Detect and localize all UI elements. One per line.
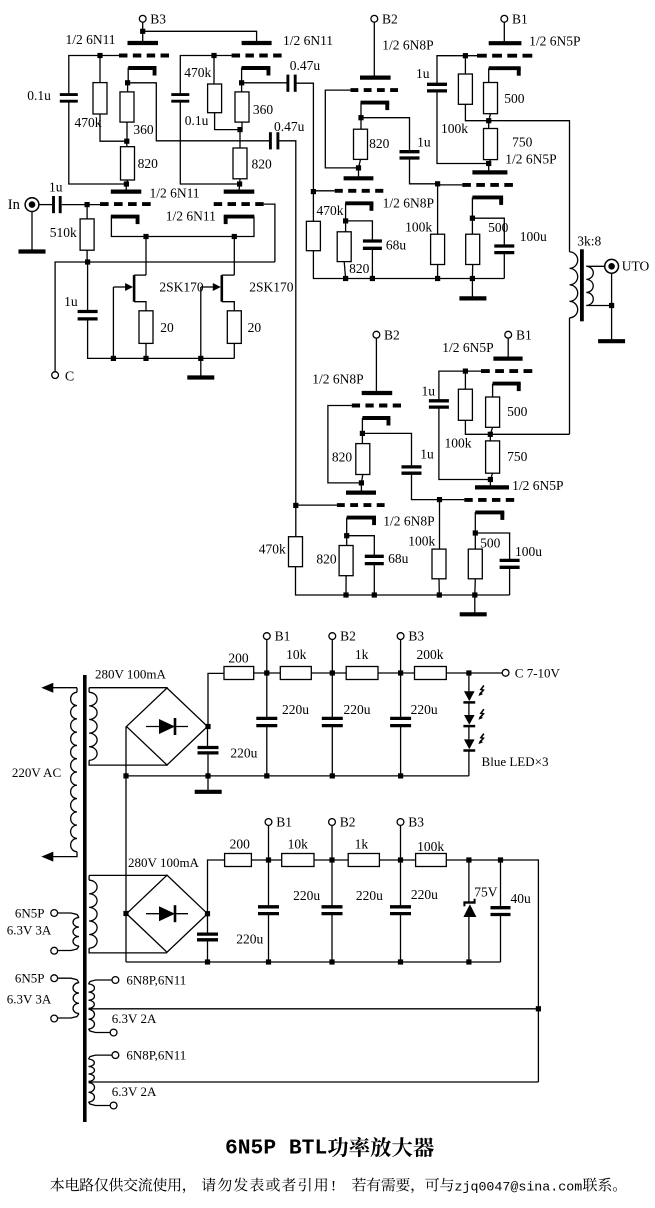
svg-text:B3: B3: [408, 815, 424, 830]
svg-text:zjq0047@sina.com: zjq0047@sina.com: [455, 1179, 583, 1194]
svg-text:0.47u: 0.47u: [290, 58, 321, 73]
svg-text:360: 360: [133, 122, 154, 137]
junction: [205, 773, 210, 778]
terminal 6N5P heater 2a: [51, 975, 58, 982]
wire: [208, 673, 224, 726]
wire: [266, 640, 268, 674]
wire: [111, 217, 254, 237]
wire: [446, 860, 538, 1082]
svg-text:750: 750: [512, 135, 533, 150]
svg-text:B3: B3: [150, 12, 166, 27]
wire: [238, 184, 241, 192]
wire: [586, 305, 611, 307]
resistor 1k (filter 2): [348, 854, 379, 867]
svg-text:40u: 40u: [510, 891, 531, 906]
resistor 20 (Q1 source): [139, 311, 153, 344]
terminal B2 (supply 2): [329, 819, 336, 826]
wire: [296, 504, 337, 506]
triode T2 1/2 6N11 plate: [242, 41, 272, 45]
svg-text:220u: 220u: [230, 745, 257, 760]
wire: [200, 358, 202, 376]
svg-text:75V: 75V: [474, 885, 498, 900]
wire: [200, 287, 202, 358]
svg-text:1/2 6N5P: 1/2 6N5P: [512, 478, 563, 493]
resistor 100k (T7 grid): [458, 74, 472, 104]
triode T6 1/2 6N8P cathode: [345, 201, 373, 205]
junction: [311, 189, 316, 194]
svg-text:220V AC: 220V AC: [12, 765, 61, 780]
junction: [198, 356, 203, 361]
resistor 470k (T6 grid): [306, 221, 320, 250]
wire: [207, 776, 209, 790]
svg-text:220u: 220u: [411, 702, 438, 717]
resistor 510k (input): [80, 219, 94, 250]
triode T7 1/2 6N5P cathode: [489, 66, 521, 70]
wire: [100, 114, 127, 141]
svg-text:6N5P: 6N5P: [15, 971, 45, 986]
junction: [358, 115, 363, 120]
capacitor 0.47u (upper coupling): [286, 75, 289, 92]
svg-text:1/2 6N11: 1/2 6N11: [65, 32, 115, 47]
svg-text:10k: 10k: [286, 647, 307, 662]
wire: [134, 302, 146, 311]
junction: [123, 773, 128, 778]
svg-text:UTO: UTO: [622, 259, 650, 274]
LED D6 blue: [464, 715, 475, 725]
wire: [39, 204, 52, 206]
wire: [86, 250, 88, 262]
wire: [489, 480, 491, 488]
terminal B1 (upper): [501, 15, 508, 22]
terminal 6N5P heater 2b: [51, 1015, 58, 1022]
triode T8 1/2 6N5P plate: [472, 170, 507, 174]
terminal B1 (supply 1): [263, 633, 270, 640]
wire: [268, 914, 270, 962]
terminal 6N5P heater 1a: [51, 910, 58, 917]
svg-text:820: 820: [251, 157, 272, 172]
svg-text:470k: 470k: [184, 65, 211, 80]
wire: [490, 427, 492, 434]
junction: [466, 670, 471, 675]
wire: [509, 567, 511, 595]
terminal C: [52, 372, 59, 379]
wire: [611, 306, 613, 340]
svg-text:68u: 68u: [388, 551, 409, 566]
wire: [128, 83, 270, 141]
triode T8 1/2 6N5P cathode: [472, 195, 503, 199]
triode T10 1/2 6N5P grid: [464, 498, 514, 502]
wire: [88, 319, 235, 359]
wire: [126, 775, 469, 777]
svg-text:1/2 6N5P: 1/2 6N5P: [442, 340, 493, 355]
wire: [507, 338, 509, 359]
resistor 820 (T1 cathode): [121, 147, 135, 180]
wire: [474, 579, 477, 595]
wire: [468, 916, 470, 962]
junction: [435, 276, 440, 281]
wire: [264, 204, 275, 262]
wire: [439, 371, 481, 400]
wire: [241, 122, 243, 130]
terminal B2 (lower): [373, 331, 380, 338]
svg-text:200k: 200k: [417, 647, 444, 662]
svg-text:6.3V 3A: 6.3V 3A: [7, 923, 52, 938]
wire: [126, 961, 501, 963]
capacitor 1u (T9 grid bootstrap): [429, 399, 449, 402]
wire: [125, 184, 127, 192]
junction: [435, 181, 440, 186]
wire: [99, 56, 101, 83]
terminal 6.3V 2A (1): [110, 1029, 117, 1036]
wire: [331, 673, 333, 718]
svg-text:500: 500: [488, 220, 509, 235]
junction: [124, 181, 129, 186]
footer note: [50, 1178, 64, 1192]
svg-text:1/2 6N8P: 1/2 6N8P: [382, 38, 433, 53]
wire: [439, 407, 491, 479]
resistor 820 (T11 cathode): [356, 444, 370, 475]
triode T4 1/2 6N11 grid: [214, 202, 264, 206]
resistor 10k (filter 1): [280, 667, 311, 680]
wire: [437, 91, 489, 164]
junction: [264, 670, 269, 675]
transistor Q1 2SK170: [133, 275, 136, 302]
svg-text:B1: B1: [512, 12, 528, 27]
triode T6 1/2 6N8P grid: [335, 189, 384, 193]
junction: [609, 303, 614, 308]
winding 6.3V 2A (1): [89, 1009, 95, 1029]
wire: [437, 56, 477, 84]
wire: [331, 860, 333, 906]
svg-text:220u: 220u: [236, 932, 263, 947]
wire: [468, 702, 470, 715]
junction: [143, 234, 148, 239]
capacitor 220u (bridge 2 smoothing): [197, 932, 218, 935]
connector UTO: [605, 259, 619, 273]
wire: [468, 673, 470, 691]
terminal 6N8P,6N11 heater 2: [112, 1052, 119, 1059]
winding 6.3V 2A (2): [89, 1083, 95, 1102]
svg-text:100k: 100k: [417, 839, 444, 854]
triode T4 1/2 6N11 plate: [224, 190, 255, 194]
wire: [378, 672, 415, 674]
wire: [412, 473, 440, 499]
wire: [126, 122, 128, 141]
resistor 200 (filter 1): [224, 667, 254, 680]
resistor 470k (T1 grid): [93, 83, 107, 114]
junction: [266, 959, 271, 964]
svg-text:510k: 510k: [50, 225, 77, 240]
wire: [88, 875, 90, 880]
terminal 6N8P,6N11 heater 1: [112, 977, 119, 984]
wire: [89, 948, 167, 953]
junction: [205, 959, 210, 964]
junction: [143, 356, 148, 361]
triode T12 1/2 6N8P cathode: [347, 516, 376, 520]
wire: [361, 475, 362, 483]
capacitor 0.1u (T1 feedback): [60, 93, 78, 96]
terminal B2 (upper): [371, 15, 378, 22]
triode T6 1/2 6N8P plate: [344, 176, 374, 180]
resistor 500 (T10 cathode): [468, 549, 482, 579]
wire: [489, 114, 491, 121]
junction: [370, 276, 375, 281]
svg-text:6.3V 2A: 6.3V 2A: [112, 1084, 157, 1099]
svg-text:1/2 6N8P: 1/2 6N8P: [312, 372, 363, 387]
wire: [89, 687, 167, 689]
triode T12 1/2 6N8P grid: [337, 503, 385, 507]
svg-text:200: 200: [230, 837, 251, 852]
triode T3 1/2 6N11 plate: [111, 190, 142, 194]
junction: [205, 911, 210, 916]
triode T7 1/2 6N5P plate: [489, 41, 522, 45]
junction: [111, 356, 116, 361]
junction: [343, 276, 348, 281]
wire: [346, 518, 348, 536]
wire: [254, 672, 281, 674]
wire: [488, 68, 490, 82]
wire: [471, 197, 473, 218]
wire: [439, 500, 441, 549]
wire: [331, 825, 333, 860]
resistor 820 (T5 cathode): [354, 129, 368, 159]
svg-text:100u: 100u: [520, 229, 547, 244]
wire: [222, 302, 235, 311]
junction: [398, 959, 403, 964]
svg-text:100k: 100k: [441, 121, 468, 136]
wire: [490, 473, 492, 479]
triode T9 1/2 6N5P cathode: [493, 382, 521, 386]
wire: [242, 82, 287, 84]
junction: [463, 53, 468, 58]
junction: [97, 53, 102, 58]
wire: [328, 406, 362, 483]
junction: [264, 773, 269, 778]
wire: [362, 433, 411, 466]
svg-text:220u: 220u: [356, 888, 383, 903]
wire: [145, 343, 147, 358]
svg-text:1u: 1u: [422, 383, 436, 398]
junction: [360, 431, 365, 436]
resistor 360 (T2 cathode): [235, 92, 249, 122]
junction: [498, 857, 503, 862]
wire: [489, 434, 491, 441]
wire: [503, 22, 505, 43]
svg-text:470k: 470k: [259, 542, 286, 557]
arrow (AC bottom): [41, 852, 53, 862]
wire: [180, 56, 231, 95]
bridge rectifier D8-D11 (lower): [127, 875, 208, 952]
svg-text:500: 500: [480, 536, 501, 551]
wire: [89, 874, 167, 876]
wire: [125, 914, 127, 963]
bridge rectifier D1-D4 (upper): [127, 688, 208, 765]
junction: [463, 369, 468, 374]
svg-text:20: 20: [248, 320, 262, 335]
wire: [325, 90, 358, 168]
junction: [536, 1006, 541, 1011]
wire: [69, 56, 119, 95]
svg-text:6N8P,6N11: 6N8P,6N11: [126, 973, 186, 988]
wire: [440, 499, 465, 501]
triode T1 1/2 6N11 cathode: [128, 66, 156, 70]
junction: [466, 857, 471, 862]
wire: [31, 211, 33, 250]
triode T2 1/2 6N11 cathode: [242, 66, 271, 70]
wire: [371, 248, 373, 278]
terminal B3 (supply 2): [397, 819, 404, 826]
wire: [207, 940, 209, 962]
resistor 360 (T1 cathode): [120, 92, 134, 122]
wire: [346, 221, 373, 241]
junction: [211, 53, 216, 58]
junction: [344, 533, 349, 538]
resistor 500 (T7 cathode): [484, 83, 498, 114]
resistor 100k (filter 2): [416, 854, 447, 867]
svg-text:3k:8: 3k:8: [577, 234, 601, 249]
wire: [359, 159, 361, 168]
wire: [266, 726, 268, 776]
junction: [372, 592, 377, 597]
resistor 750 (T9-T10): [486, 441, 500, 473]
svg-text:1k: 1k: [355, 647, 369, 662]
resistor 20 (Q2 source): [227, 311, 241, 344]
wire: [295, 83, 313, 191]
wire: [127, 83, 129, 92]
svg-text:2SK170: 2SK170: [159, 280, 204, 295]
capacitor 0.47u (lower coupling): [269, 132, 272, 149]
wire: [437, 184, 439, 234]
terminal B1 (lower): [505, 331, 512, 338]
terminal B1 (supply 2): [265, 819, 272, 826]
power transformer secondary 280V (upper): [89, 692, 97, 760]
wire: [125, 727, 127, 914]
svg-text:500: 500: [507, 404, 528, 419]
wire: [233, 237, 235, 276]
svg-text:1u: 1u: [416, 66, 430, 81]
wire: [278, 141, 296, 506]
resistor 500 (T8 cathode): [466, 234, 480, 264]
power transformer primary 220V: [71, 692, 77, 851]
wire: [241, 83, 243, 92]
resistor 820 (T6 cathode): [337, 232, 351, 262]
junction: [232, 234, 237, 239]
transformer secondary: [586, 266, 593, 305]
wire: [488, 164, 490, 173]
triode T3 1/2 6N11 grid: [100, 202, 151, 206]
wire: [208, 860, 225, 914]
wire: [134, 274, 146, 276]
junction: [488, 432, 493, 437]
wire: [142, 22, 144, 43]
resistor 100k (T10 grid): [432, 549, 446, 579]
wire: [62, 204, 100, 206]
wire: [87, 262, 89, 312]
junction: [237, 181, 242, 186]
triode T7 1/2 6N5P grid: [477, 54, 532, 58]
wire: [400, 825, 402, 860]
svg-text:0.1u: 0.1u: [185, 113, 209, 128]
triode T11 1/2 6N8P plate: [362, 391, 393, 395]
svg-text:Blue LED×3: Blue LED×3: [482, 754, 549, 769]
svg-text:68u: 68u: [386, 238, 407, 253]
wire: [373, 22, 375, 77]
capacitor 0.1u (T2 feedback): [171, 93, 189, 96]
wire: [241, 68, 243, 83]
wire: [345, 576, 347, 595]
svg-text:100k: 100k: [408, 533, 435, 548]
svg-text:6N8P,6N11: 6N8P,6N11: [126, 1048, 186, 1063]
transformer core: [580, 249, 584, 321]
triode T1 1/2 6N11 grid: [119, 54, 169, 58]
svg-text:280V 100mA: 280V 100mA: [95, 667, 167, 682]
junction: [356, 165, 361, 170]
svg-text:10k: 10k: [288, 837, 309, 852]
svg-text:360: 360: [253, 102, 274, 117]
junction: [329, 959, 334, 964]
junction: [466, 959, 471, 964]
triode T10 1/2 6N5P plate: [475, 485, 509, 489]
wire: [55, 262, 275, 372]
wire: [400, 726, 402, 776]
junction: [124, 139, 129, 144]
wire: [312, 192, 314, 222]
svg-text:B2: B2: [382, 12, 398, 27]
svg-text:B2: B2: [384, 327, 400, 342]
triode T1 1/2 6N11 plate: [128, 41, 159, 45]
svg-text:1/2 6N11: 1/2 6N11: [149, 186, 199, 201]
wire: [266, 673, 268, 718]
transistor Q2 2SK170: [221, 275, 224, 302]
svg-text:1/2 6N11: 1/2 6N11: [283, 33, 333, 48]
svg-text:220u: 220u: [282, 702, 309, 717]
wire: [464, 371, 466, 389]
wire: [295, 505, 297, 536]
terminal 6.3V 2A (2): [110, 1102, 117, 1109]
wire: [468, 751, 470, 776]
wire: [438, 579, 440, 595]
svg-text:100k: 100k: [405, 220, 432, 235]
wire: [251, 859, 281, 861]
wire: [489, 121, 570, 252]
wire: [86, 205, 88, 219]
wire: [69, 101, 127, 184]
svg-text:B1: B1: [275, 629, 291, 644]
wire: [360, 103, 362, 118]
wire: [475, 533, 509, 560]
triode T10 1/2 6N5P cathode: [475, 510, 504, 514]
svg-text:0.1u: 0.1u: [27, 88, 51, 103]
resistor 200k (filter 1): [415, 667, 447, 680]
wire: [53, 852, 77, 857]
transformer 3k:8 primary: [570, 252, 578, 318]
junction: [470, 216, 475, 221]
wire: [89, 1081, 539, 1083]
resistor 100k (T9 grid): [458, 389, 472, 420]
svg-text:6N5P BTL: 6N5P BTL: [225, 1137, 327, 1161]
junction: [473, 530, 478, 535]
wire: [474, 533, 476, 549]
terminal 6N5P heater 1b: [51, 947, 58, 954]
winding 6.3V 3A (2): [58, 978, 79, 983]
resistor 470k (T12 grid): [289, 537, 303, 567]
wire: [145, 237, 147, 276]
wire: [400, 673, 402, 718]
wire: [112, 287, 114, 358]
wire: [126, 180, 127, 184]
winding 6N8P,6N11 (1): [89, 980, 113, 984]
junction: [398, 670, 403, 675]
